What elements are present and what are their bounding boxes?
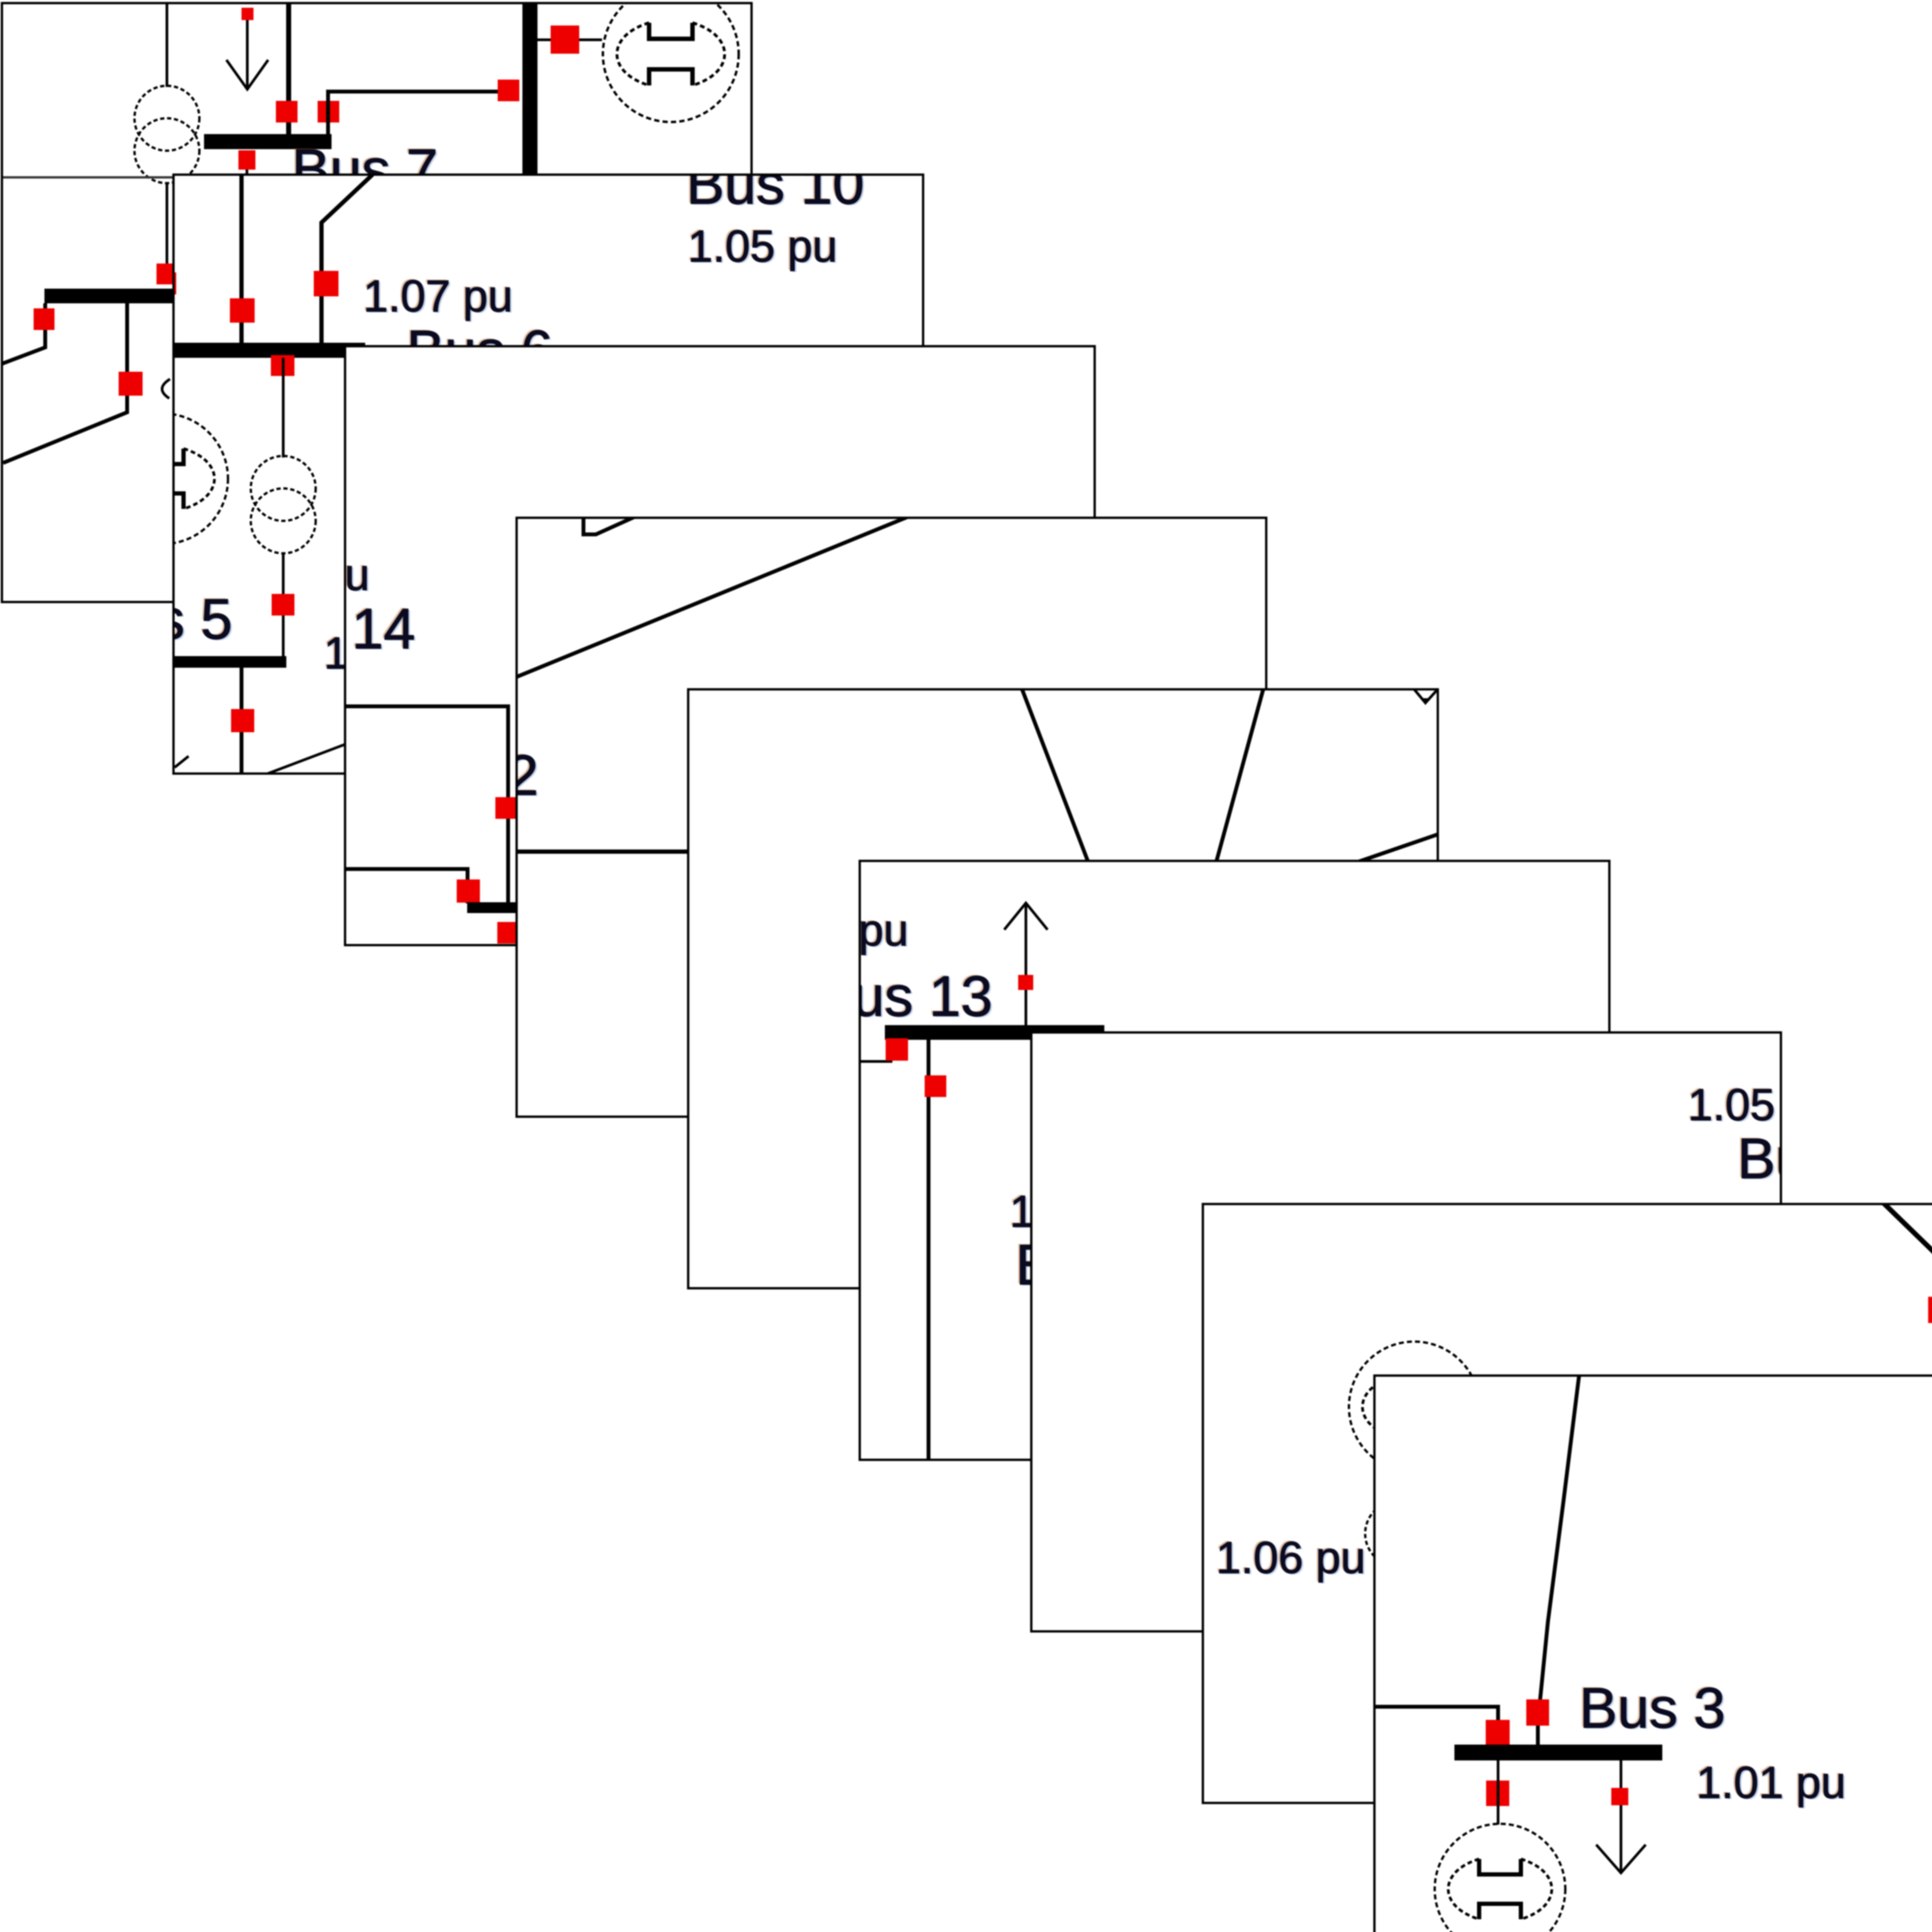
line from top to Bus 7 bbox=[286, 4, 291, 134]
frame border bbox=[517, 518, 1267, 1117]
svg-text:Bus 13: Bus 13 bbox=[859, 964, 993, 1028]
switch on slanted line bbox=[1526, 1699, 1549, 1726]
line from top to Bus 6 bbox=[240, 175, 244, 344]
bus Bus 13 bbox=[885, 1025, 1104, 1040]
L wire at left end bbox=[859, 1040, 891, 1061]
red sliver at border bbox=[339, 753, 346, 777]
switch bbox=[457, 879, 480, 903]
card 3 (frame 4) bbox=[515, 517, 1267, 1118]
svg-text:Bus 10: Bus 10 bbox=[686, 173, 864, 216]
wire to generator bbox=[1497, 1760, 1500, 1825]
switch below Bus 7 bbox=[238, 150, 255, 170]
switch bbox=[925, 1075, 946, 1097]
card 5 (frame 6) bbox=[859, 860, 1611, 1461]
switch bbox=[231, 709, 254, 732]
svg-text:1.01 pu: 1.01 pu bbox=[1696, 1757, 1846, 1808]
switch bbox=[272, 594, 294, 616]
bus Bus 6 bbox=[172, 343, 365, 358]
frame border bbox=[1203, 1204, 1932, 1803]
frame border bbox=[860, 861, 1610, 1460]
red sliver at border bbox=[340, 633, 346, 654]
svg-text:1.07 pu: 1.07 pu bbox=[363, 271, 513, 321]
switch bbox=[886, 1038, 908, 1061]
bus (partial, covered right) bbox=[467, 902, 522, 913]
svg-text:Bus 3: Bus 3 bbox=[1579, 1676, 1725, 1740]
wire bus8 to generator bbox=[537, 39, 602, 41]
svg-text:Bus 14: Bus 14 bbox=[344, 597, 415, 661]
switch bbox=[314, 271, 338, 296]
bus Bus 5 bbox=[172, 656, 286, 668]
svg-text:1.05 pu: 1.05 pu bbox=[1688, 1080, 1782, 1130]
long wire down bbox=[927, 1040, 930, 1459]
bus (Bus 4 bar) bbox=[44, 289, 173, 303]
wire to transformer bbox=[166, 4, 168, 87]
card 1 (frame 2) bbox=[172, 173, 924, 775]
svg-text:u: u bbox=[345, 549, 370, 600]
frame border bbox=[2, 3, 752, 602]
switch below bus bbox=[1486, 1781, 1509, 1806]
switch at Bus8 end bbox=[498, 80, 519, 101]
wire below Bus 7 bbox=[246, 170, 248, 177]
generator G8 bbox=[603, 0, 739, 122]
wire down-left 2 bbox=[3, 303, 127, 463]
red sliver bbox=[511, 925, 517, 948]
V diagonal right bbox=[1213, 688, 1264, 873]
V diagonal left bbox=[1022, 688, 1092, 873]
kinked wire at top bbox=[583, 517, 635, 534]
svg-text:1.06 pu: 1.06 pu bbox=[1216, 1532, 1366, 1583]
generator G1 bbox=[1349, 1342, 1480, 1472]
switch bbox=[551, 26, 579, 54]
card 7 (frame 8) bbox=[1202, 1203, 1932, 1804]
card 2 (frame 3) bbox=[344, 345, 1096, 946]
horizontal wire bbox=[515, 850, 863, 854]
svg-text:1.05 pu: 1.05 pu bbox=[688, 221, 837, 271]
svg-text:Bus 12: Bus 12 bbox=[515, 743, 539, 807]
switch below Bus 6 bbox=[271, 355, 294, 376]
small switch on arrow bbox=[1018, 975, 1033, 990]
frame border bbox=[1374, 1376, 1932, 1932]
diagonal wire bottom right bbox=[268, 744, 345, 774]
shared symbol defs bbox=[0, 0, 1, 1]
switch bbox=[34, 308, 54, 330]
transformer circle sliver bbox=[1365, 1501, 1430, 1566]
wire Bus7 to Bus8 bbox=[328, 92, 511, 134]
red sliver bbox=[512, 805, 518, 826]
generator G3 bbox=[1435, 1824, 1565, 1932]
transformer T-1 bbox=[251, 456, 316, 553]
load arrow bbox=[1620, 1760, 1622, 1871]
sgen arrow up bbox=[1025, 903, 1027, 1026]
wire L 2 bbox=[344, 869, 468, 903]
frame border bbox=[173, 175, 923, 774]
small diagonal at bottom left bbox=[175, 756, 189, 767]
wire below transformer bbox=[166, 183, 168, 272]
card 8 (frame 9, fully visible) bbox=[1373, 1374, 1932, 1932]
svg-text:pu: pu bbox=[859, 905, 908, 955]
bus Bus 3 bbox=[1454, 1745, 1662, 1760]
long diagonal wire bbox=[515, 517, 908, 677]
wire below Bus 5 bbox=[240, 668, 243, 773]
slanted line from top bbox=[1539, 1374, 1579, 1714]
wire to transformer bbox=[282, 358, 285, 457]
wire from left border bbox=[1373, 1707, 1498, 1722]
transformer T-0 bbox=[134, 86, 199, 183]
thick line from top right bbox=[1883, 1203, 1932, 1370]
bus Bus 8 (vertical bar) bbox=[522, 4, 537, 184]
bus Bus 7 bbox=[204, 134, 332, 149]
svg-text:Bus 5: Bus 5 bbox=[172, 587, 232, 651]
wire down-left 1 from bus bbox=[2, 303, 45, 364]
frame border bbox=[1031, 1032, 1781, 1632]
switch bbox=[318, 101, 339, 122]
switch bbox=[1928, 1297, 1932, 1323]
card 4 (frame 5) bbox=[687, 688, 1439, 1289]
switch bbox=[230, 298, 255, 323]
frame border bbox=[345, 346, 1095, 946]
wire below transformer bbox=[282, 553, 285, 657]
kinked line into Bus 6 bbox=[321, 175, 372, 344]
card 6 (frame 7) bbox=[1030, 1031, 1782, 1633]
wire to bus bbox=[1536, 1726, 1540, 1745]
switch bbox=[1486, 1720, 1510, 1746]
load arrow at Bus 7 bbox=[241, 8, 253, 20]
wire L 1 bbox=[344, 706, 508, 904]
switch bbox=[495, 797, 517, 819]
arrow tip top right bbox=[1414, 689, 1437, 703]
switch bbox=[276, 101, 298, 122]
card 0 (frame 1, top-left) bbox=[1, 2, 753, 603]
wire grey stub left bbox=[1, 176, 172, 179]
frame border bbox=[688, 689, 1438, 1289]
diagonal wire bottom right bbox=[1344, 834, 1439, 867]
red sliver at left border bbox=[165, 272, 176, 294]
switch on transformer leg bbox=[156, 264, 177, 284]
switch bbox=[119, 372, 143, 396]
svg-text:Bus 2: Bus 2 bbox=[1737, 1127, 1782, 1190]
switch below bus bbox=[497, 922, 520, 944]
arc sliver of covered symbol bbox=[162, 379, 170, 398]
generator G6 (clipped by left border) bbox=[97, 413, 228, 544]
